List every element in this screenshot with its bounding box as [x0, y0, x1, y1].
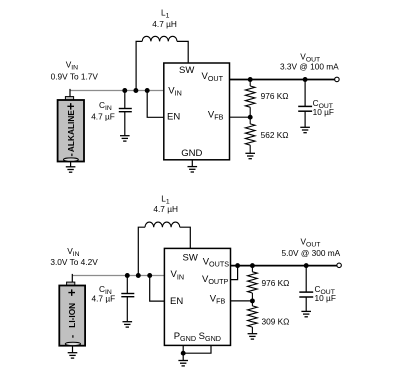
svg-text:SW: SW	[183, 253, 198, 264]
svg-text:4.7 µH: 4.7 µH	[152, 19, 177, 29]
svg-text:+: +	[63, 102, 78, 110]
svg-text:-: -	[68, 335, 79, 338]
svg-text:10 µF: 10 µF	[315, 293, 336, 303]
svg-text:EN: EN	[170, 296, 183, 307]
svg-text:+: +	[64, 288, 79, 296]
svg-text:5.0V @ 300 mA: 5.0V @ 300 mA	[282, 248, 341, 258]
svg-text:4.7 µF: 4.7 µF	[92, 294, 116, 304]
svg-text:976 KΩ: 976 KΩ	[262, 278, 290, 288]
svg-text:-: -	[66, 153, 77, 156]
svg-text:0.9V To 1.7V: 0.9V To 1.7V	[51, 71, 99, 81]
svg-text:976 KΩ: 976 KΩ	[261, 91, 289, 101]
svg-text:309 KΩ: 309 KΩ	[262, 317, 290, 327]
svg-text:SW: SW	[179, 65, 194, 76]
svg-text:LI-ION: LI-ION	[67, 303, 77, 328]
svg-text:562 KΩ: 562 KΩ	[261, 130, 289, 140]
svg-text:ALKALINE: ALKALINE	[66, 110, 76, 152]
svg-text:EN: EN	[167, 112, 180, 123]
svg-text:3.3V @ 100 mA: 3.3V @ 100 mA	[280, 62, 339, 72]
svg-text:10 µF: 10 µF	[313, 107, 334, 117]
svg-text:3.0V To 4.2V: 3.0V To 4.2V	[50, 257, 98, 267]
svg-text:GND: GND	[181, 148, 202, 159]
svg-text:4.7 µF: 4.7 µF	[91, 111, 115, 121]
svg-text:4.7 µH: 4.7 µH	[153, 204, 178, 214]
